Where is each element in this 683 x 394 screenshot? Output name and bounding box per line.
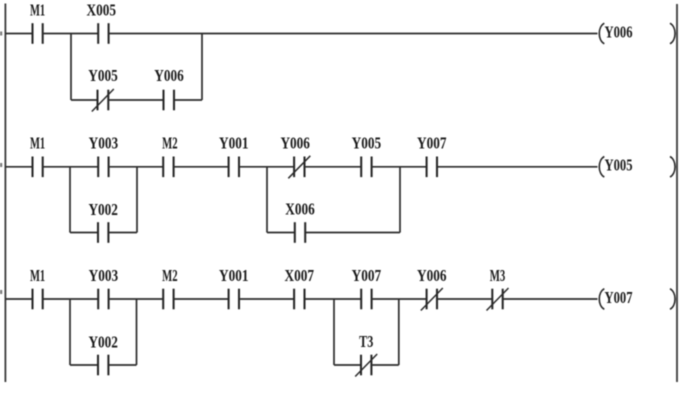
svg-text:Y006: Y006 [154,66,184,85]
svg-text:Y007: Y007 [605,288,633,307]
coil Y006 open paren [599,23,604,44]
svg-text:Y001: Y001 [219,266,249,285]
svg-text:M2: M2 [162,134,178,153]
svg-text:Y005: Y005 [88,66,118,85]
wire rung2 M1 to Y003 [43,166,98,168]
branch rung3 Y002 wire right [108,364,136,366]
tick mark rung 1 [0,32,2,36]
svg-text:Y006: Y006 [417,266,447,285]
contact M2 rung3 [163,289,173,310]
branch rung1 wire middle segment [108,99,163,101]
coil Y005 close paren [670,157,675,178]
branch rung2 Y002 wire left [70,232,98,234]
branch rung3 T3 left vertical [333,299,335,365]
tick mark rung 3 [0,290,2,294]
contact Y002 rung2 branch [98,222,108,243]
svg-text:Y006: Y006 [605,22,633,41]
coil Y005 open paren [599,157,604,178]
wire rung3 M3 to coil [503,298,598,300]
wire rung1 X005 to coil [109,33,598,35]
contact X007 rung3 [294,289,304,310]
branch rung1 wire right segment [174,99,202,101]
svg-text:Y007: Y007 [352,266,382,285]
coil Y007 open paren [599,289,604,310]
coil Y007 close paren [670,289,675,310]
svg-text:X005: X005 [87,1,117,20]
wire rung2 Y007 to coil [437,166,598,168]
svg-text:M1: M1 [30,134,45,153]
svg-text:Y002: Y002 [88,333,118,352]
wire rung2 rail to M1 [5,166,32,168]
svg-text:M3: M3 [490,266,506,285]
contact Y006 NC rung2 [288,156,310,179]
branch rung2 Y002 left vertical [69,167,71,233]
wire rung3 M1 to Y003 [43,298,98,300]
contact Y003 rung3 [98,289,108,310]
wire rung2 Y001 to Y006 [239,166,294,168]
svg-text:Y002: Y002 [88,200,118,219]
branch rung2 X006 wire left [267,232,295,234]
contact X005 rung1 [98,23,108,44]
contact Y005 NC rung1 branch [92,89,114,112]
svg-text:M1: M1 [30,266,45,285]
branch rung3 T3 right vertical [398,299,400,365]
svg-text:Y005: Y005 [352,134,382,153]
branch rung2 Y002 right vertical [136,167,138,233]
contact M1 rung2 [33,157,43,178]
contact M2 rung2 [163,157,173,178]
branch rung1 left vertical [70,34,72,101]
contact Y002 rung3 branch [98,355,108,376]
wire rung1 M1 to X005 [43,33,98,35]
branch rung3 T3 wire right [371,364,398,366]
contact Y001 rung2 [229,157,239,178]
wire rung3 X007 to Y007 [305,298,362,300]
svg-text:Y006: Y006 [280,134,310,153]
svg-text:M2: M2 [162,266,178,285]
contact X006 rung2 branch [295,222,305,243]
branch rung2 X006 wire right [305,232,400,234]
contact M1 rung3 [33,289,43,310]
svg-text:Y003: Y003 [89,266,119,285]
svg-text:M1: M1 [30,1,45,20]
contact Y001 rung3 [229,289,239,310]
branch rung3 Y002 left vertical [69,299,71,365]
wire rung3 M2 to Y001 [174,298,229,300]
branch rung3 Y002 wire left [70,364,98,366]
svg-text:Y005: Y005 [605,156,633,175]
contact Y007 rung2 [427,157,437,178]
branch rung2 Y002 wire right [108,232,137,234]
svg-text:X007: X007 [285,266,315,285]
wire rung2 Y005 to Y007 [372,166,427,168]
branch rung3 Y002 right vertical [136,299,138,365]
contact Y005 rung2 [361,157,371,178]
contact Y006 rung1 branch [164,90,175,111]
branch rung2 X006 left vertical [266,167,268,233]
wire rung1 rail to M1 [5,33,32,35]
wire rung3 rail to M1 [5,298,32,300]
svg-text:T3: T3 [359,332,373,351]
contact T3 NC rung3 branch [355,354,377,377]
wire rung3 Y007 to Y006 [372,298,427,300]
svg-text:Y007: Y007 [417,134,447,153]
branch rung1 wire left segment [71,99,98,101]
wire rung2 Y006 to Y005 [305,166,362,168]
wire rung3 Y003 to M2 [109,298,164,300]
contact M3 NC rung3 [487,288,509,311]
contact M1 rung1 [33,23,43,44]
branch rung1 right vertical [201,34,203,101]
wire rung2 Y003 to M2 [109,166,164,168]
wire rung3 Y006 to M3 [437,298,492,300]
right power rail [676,4,678,382]
left power rail [4,4,6,383]
wire rung2 M2 to Y001 [174,166,229,168]
branch rung2 X006 right vertical [399,167,401,233]
svg-text:X006: X006 [285,200,315,219]
contact Y006 NC rung3 [421,288,443,311]
contact Y003 rung2 [98,157,108,178]
branch rung3 T3 wire left [334,364,361,366]
svg-text:Y001: Y001 [219,134,249,153]
svg-text:Y003: Y003 [89,134,119,153]
tick mark rung 2 [0,163,2,167]
contact Y007 rung3 [361,289,371,310]
wire rung3 Y001 to X007 [239,298,294,300]
coil Y006 close paren [670,23,675,44]
